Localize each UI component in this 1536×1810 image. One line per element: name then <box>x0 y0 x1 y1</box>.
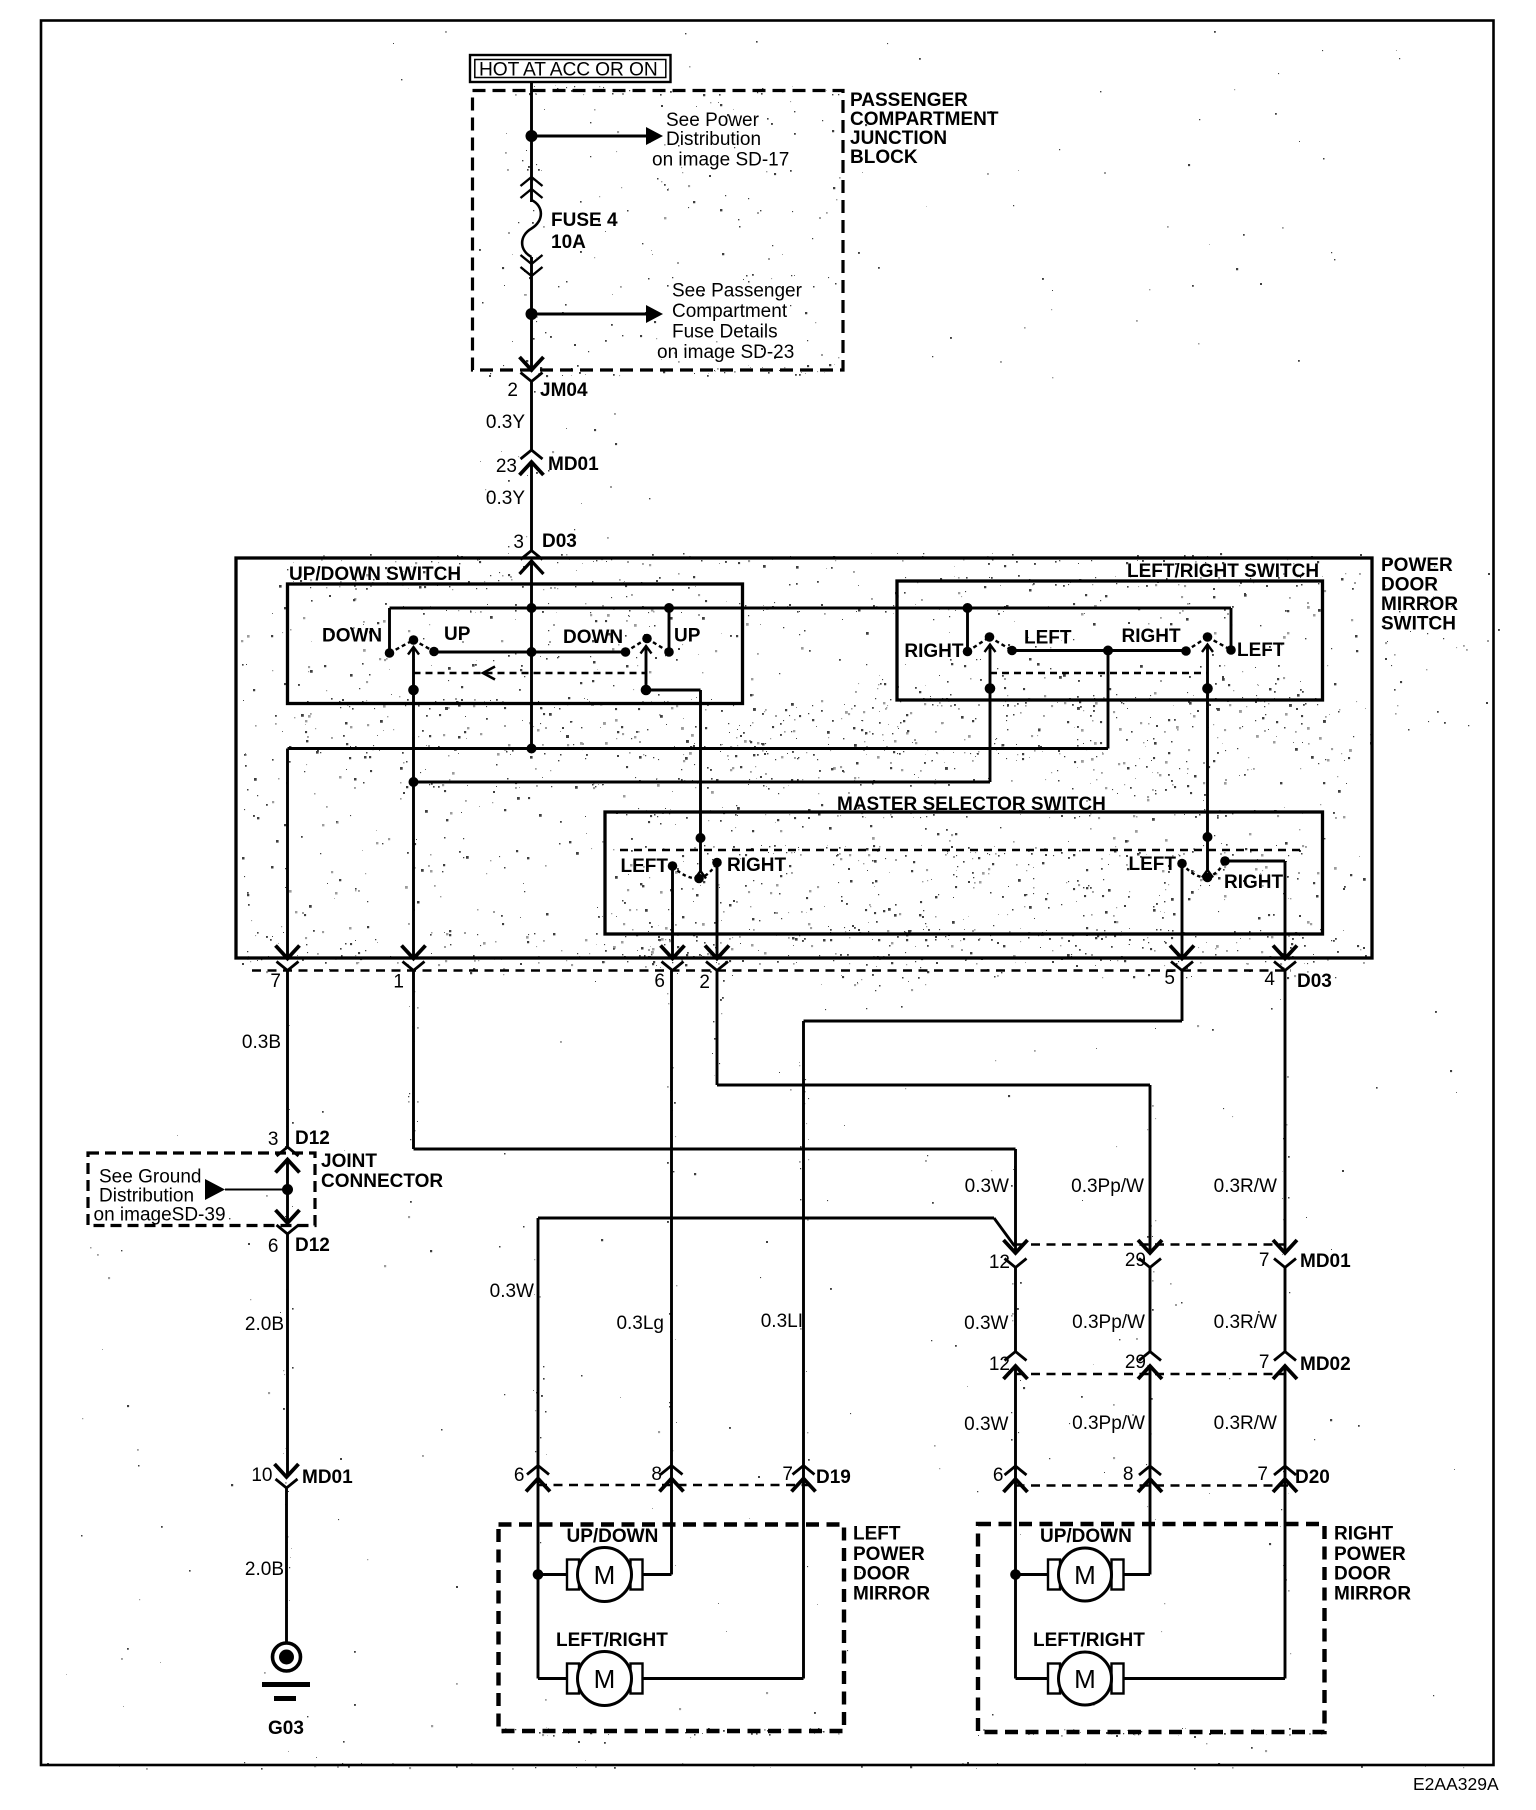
svg-text:E2AA329A: E2AA329A <box>1413 1774 1499 1794</box>
svg-text:6: 6 <box>268 1236 279 1257</box>
node S3 wiper junction <box>985 683 996 694</box>
connector D12 pin 6 <box>276 1210 300 1223</box>
svg-text:G03: G03 <box>268 1718 304 1739</box>
svg-text:UP/DOWN: UP/DOWN <box>1040 1526 1132 1547</box>
connector D03 pin 6 <box>661 946 685 959</box>
svg-text:2.0B: 2.0B <box>245 1559 284 1580</box>
svg-text:UP: UP <box>674 626 701 647</box>
svg-text:JUNCTION: JUNCTION <box>850 128 947 149</box>
connector D03 pin 1 <box>402 946 426 959</box>
svg-text:D19: D19 <box>816 1467 851 1488</box>
connector D03 row (dashed) <box>252 969 1291 972</box>
fuse F4 10A <box>521 177 543 186</box>
svg-text:2.0B: 2.0B <box>245 1314 284 1335</box>
svg-text:0.3Lg: 0.3Lg <box>616 1313 664 1334</box>
svg-text:MD02: MD02 <box>1300 1354 1351 1375</box>
svg-text:5: 5 <box>1164 968 1175 989</box>
wire pin 7 drop from feed rail <box>286 749 289 959</box>
wire 2.0B D12 to MD01 <box>286 1234 289 1477</box>
svg-text:SWITCH: SWITCH <box>1381 614 1456 635</box>
svg-text:POWER: POWER <box>853 1544 925 1565</box>
svg-text:POWER: POWER <box>1381 555 1453 576</box>
wire S4 wiper to master selector right <box>1206 689 1209 838</box>
connector MD02 pin 7 <box>1274 1352 1296 1361</box>
svg-text:LEFT/RIGHT SWITCH: LEFT/RIGHT SWITCH <box>1127 561 1319 582</box>
svg-text:0.3R/W: 0.3R/W <box>1214 1176 1277 1197</box>
mirror assembly RIGHT POWER DOOR MIRROR (dashed box) <box>978 1524 1325 1732</box>
svg-text:LEFT: LEFT <box>1024 628 1072 649</box>
svg-text:UP: UP <box>444 624 471 645</box>
svg-text:2: 2 <box>699 972 710 993</box>
wire 0.3R/W pin 4 down <box>1284 971 1287 1254</box>
connector MD02 pin 12 <box>1005 1352 1027 1361</box>
wire selector feed rail (pin 7 side) <box>288 747 1109 750</box>
svg-text:6: 6 <box>514 1465 525 1486</box>
connector MD01 pin 10 <box>275 1464 299 1477</box>
wire feed from HOT AT ACC OR ON into junction block <box>530 82 533 202</box>
connector MD01 pin 29 <box>1138 1240 1162 1253</box>
svg-text:0.3W: 0.3W <box>964 1414 1008 1435</box>
mirror assembly LEFT POWER DOOR MIRROR (dashed box) <box>499 1525 845 1732</box>
svg-text:0.3W: 0.3W <box>490 1281 534 1302</box>
svg-text:0.3Pp/W: 0.3Pp/W <box>1072 1312 1145 1333</box>
connector D19 pin 7 <box>793 1466 815 1475</box>
wire bus drop to up/down switch 1 DOWN contact <box>388 608 391 653</box>
svg-text:DOOR: DOOR <box>1381 575 1438 596</box>
node pin1 junction to S3 wiper rail <box>409 777 419 787</box>
svg-text:Distribution: Distribution <box>666 129 761 150</box>
node bus junction at D03 feed <box>527 603 537 613</box>
svg-text:POWER: POWER <box>1334 1544 1406 1565</box>
wire 0.3W MD02 to D20 <box>1014 1366 1017 1575</box>
svg-text:PASSENGER: PASSENGER <box>850 90 968 111</box>
svg-text:0.3Y: 0.3Y <box>486 488 525 509</box>
wire 2.0B MD01 to ground <box>285 1488 288 1643</box>
wire master LEFT contact to pin 6 <box>671 866 674 958</box>
connector MD01 pin 23 <box>521 450 543 459</box>
switch S6 master selector right (LEFT/RIGHT) <box>1203 832 1213 842</box>
svg-text:29: 29 <box>1125 1250 1146 1271</box>
svg-text:CONNECTOR: CONNECTOR <box>321 1171 443 1192</box>
svg-text:RIGHT: RIGHT <box>727 855 787 876</box>
wire common down to right left/right motor <box>1014 1575 1017 1679</box>
svg-text:1: 1 <box>393 972 404 993</box>
svg-text:DOOR: DOOR <box>853 1564 910 1585</box>
svg-text:0.3W: 0.3W <box>965 1176 1009 1197</box>
wire rail pin1 to S3 wiper <box>414 781 991 784</box>
node S2 wiper junction <box>641 685 652 696</box>
svg-text:MIRROR: MIRROR <box>853 1584 930 1605</box>
connector D20 pin 6 <box>1005 1466 1027 1475</box>
wire 0.3R/W MD01 to MD02 <box>1284 1268 1287 1352</box>
wire bus drop to left/right switch RIGHT contact <box>966 608 969 652</box>
svg-text:2: 2 <box>507 380 518 401</box>
svg-text:0.3R/W: 0.3R/W <box>1214 1312 1277 1333</box>
wire 0.3Pp/W D20 pin8 to right up/down motor <box>1124 1573 1151 1576</box>
wire 0.3W branch to left mirror <box>538 1217 994 1220</box>
svg-text:See Power: See Power <box>666 110 760 131</box>
svg-text:M: M <box>594 1664 616 1694</box>
connector D19 pin 8 <box>661 1466 683 1475</box>
svg-text:MIRROR: MIRROR <box>1381 594 1458 615</box>
svg-text:See Ground: See Ground <box>99 1167 201 1188</box>
svg-text:8: 8 <box>651 1464 662 1485</box>
svg-text:HOT AT ACC OR ON: HOT AT ACC OR ON <box>479 60 658 81</box>
svg-text:DOWN: DOWN <box>322 626 382 647</box>
svg-text:12: 12 <box>989 1354 1010 1375</box>
svg-text:LEFT: LEFT <box>1129 854 1177 875</box>
svg-text:on image SD-17: on image SD-17 <box>652 150 789 171</box>
svg-text:MD01: MD01 <box>302 1467 353 1488</box>
svg-text:D03: D03 <box>1297 971 1332 992</box>
wire master right RIGHT contact to pin 4 <box>1225 860 1285 863</box>
wire ground distribution reference <box>205 1179 225 1200</box>
mechanical link dashed S3-S4 <box>990 672 1208 674</box>
connector D20 row (dashed) <box>1016 1484 1291 1487</box>
svg-text:23: 23 <box>496 456 517 477</box>
connector MD02 row (dashed) <box>1016 1373 1286 1376</box>
wire 0.3Pp/W MD02 to D20 <box>1149 1366 1152 1575</box>
node S1 wiper junction <box>408 685 419 696</box>
svg-text:0.3LI: 0.3LI <box>761 1311 803 1332</box>
wire pin 1 down and right (0.3W) <box>412 971 415 1150</box>
svg-text:JM04: JM04 <box>540 380 588 401</box>
connector D12 pin 3 <box>277 1147 299 1156</box>
svg-text:0.3Pp/W: 0.3Pp/W <box>1072 1413 1145 1434</box>
wire 0.3Pp/W MD01 to MD02 <box>1149 1268 1152 1352</box>
svg-text:FUSE 4: FUSE 4 <box>551 210 618 231</box>
svg-text:7: 7 <box>1259 1352 1270 1373</box>
wire 0.3Pp/W pin 2 right and down <box>716 971 719 1086</box>
wire to power distribution reference <box>532 135 647 138</box>
svg-text:LEFT: LEFT <box>1237 640 1285 661</box>
svg-text:0.3B: 0.3B <box>242 1032 281 1053</box>
svg-text:RIGHT: RIGHT <box>1224 872 1284 893</box>
svg-text:COMPARTMENT: COMPARTMENT <box>850 109 999 130</box>
svg-text:M: M <box>1074 1560 1096 1590</box>
wire S3/S4 rail drop to selector rail <box>1107 651 1110 749</box>
node bus junction above up/down right contact <box>664 603 674 613</box>
wire S1 wiper to pin 1 and cross rail <box>412 690 415 958</box>
svg-text:Fuse Details: Fuse Details <box>672 322 778 343</box>
node S4 wiper junction <box>1202 683 1213 694</box>
connector D19 pin 6 <box>527 1466 549 1475</box>
node bus junction above left/right contact <box>963 603 973 613</box>
wire D03 feed down to selector rail <box>530 561 533 749</box>
wire bus drop to up/down switch 2 UP contact <box>668 608 671 652</box>
node rail junction to selector rail <box>1103 646 1113 656</box>
mechanical link dashed master selector <box>620 849 1305 851</box>
svg-text:4: 4 <box>1264 969 1275 990</box>
svg-text:LEFT/RIGHT: LEFT/RIGHT <box>1033 1630 1145 1651</box>
svg-text:RIGHT: RIGHT <box>904 641 964 662</box>
wire bus drop to left/right switch LEFT contact <box>1230 608 1233 650</box>
connector MD01 pin 7 <box>1273 1240 1297 1253</box>
svg-text:0.3W: 0.3W <box>964 1313 1008 1334</box>
connector MD01 pin 12 <box>1004 1240 1028 1253</box>
connector D19 row (dashed) <box>538 1484 810 1487</box>
switch box LEFT/RIGHT SWITCH <box>897 581 1323 700</box>
svg-text:8: 8 <box>1123 1464 1134 1485</box>
svg-text:M: M <box>594 1560 616 1590</box>
wire 0.3W MD01 to MD02 <box>1014 1268 1017 1352</box>
wire master RIGHT contact to pin 2 <box>716 863 719 959</box>
connector D03 pin 5 <box>1170 946 1194 959</box>
wire S3 wiper down to rail <box>989 689 992 783</box>
wire 0.3R/W D20 pin7 to right left/right motor <box>1124 1677 1286 1680</box>
node junction to power distribution <box>526 130 538 142</box>
wire master right LEFT contact to pin 5 <box>1181 864 1184 959</box>
svg-text:7: 7 <box>782 1464 793 1485</box>
svg-text:D12: D12 <box>295 1128 330 1149</box>
wire S2 wiper to master selector left <box>646 689 701 692</box>
svg-text:on image SD-23: on image SD-23 <box>657 342 794 363</box>
svg-text:DOOR: DOOR <box>1334 1564 1391 1585</box>
svg-text:6: 6 <box>654 971 665 992</box>
wire common to left up/down motor <box>538 1573 567 1576</box>
node rail junction at D03 feed <box>527 647 537 657</box>
wire 0.3LI D19 pin7 to left left/right motor <box>802 1466 805 1679</box>
svg-text:3: 3 <box>268 1129 279 1150</box>
svg-text:RIGHT: RIGHT <box>1122 626 1182 647</box>
svg-text:MIRROR: MIRROR <box>1334 1584 1411 1605</box>
wire 0.3Lg pin 6 to D19 pin 8 <box>670 971 673 1466</box>
wire contact rail between S3 and S4 <box>1012 649 1186 652</box>
connector D03 pin 3 <box>521 551 543 560</box>
wire contact rail between S1 and S2 <box>434 651 626 654</box>
svg-text:LEFT: LEFT <box>621 856 669 877</box>
svg-text:7: 7 <box>270 971 281 992</box>
wire 0.3Y JM04 to MD01 <box>530 382 533 450</box>
svg-text:0.3R/W: 0.3R/W <box>1214 1413 1277 1434</box>
ground G03 <box>273 1643 301 1671</box>
svg-text:7: 7 <box>1259 1250 1270 1271</box>
node junction to fuse details <box>526 308 538 320</box>
svg-text:BLOCK: BLOCK <box>850 147 918 168</box>
joint connector box (dashed) <box>88 1153 315 1226</box>
connector D20 pin 8 <box>1139 1466 1161 1475</box>
svg-text:M: M <box>1074 1664 1096 1694</box>
svg-text:LEFT/RIGHT: LEFT/RIGHT <box>556 1630 668 1651</box>
connector D03 pin 7 <box>276 946 300 959</box>
node left mirror common junction <box>533 1569 544 1580</box>
wire to fuse details reference <box>532 313 647 316</box>
svg-text:on imageSD-39: on imageSD-39 <box>94 1205 226 1226</box>
power source label HOT AT ACC OR ON <box>470 55 671 82</box>
svg-text:6: 6 <box>993 1465 1004 1486</box>
junction block PASSENGER COMPARTMENT JUNCTION BLOCK (dashed) <box>473 91 844 371</box>
switch box UP/DOWN SWITCH <box>288 584 743 704</box>
svg-text:7: 7 <box>1257 1464 1268 1485</box>
wire 0.3Y MD01 to D03 <box>530 462 533 550</box>
svg-text:RIGHT: RIGHT <box>1334 1524 1394 1545</box>
svg-text:See Passenger: See Passenger <box>672 281 803 302</box>
connector D03 pin 2 <box>705 946 729 959</box>
wire 0.3LI pin 5 left and down to D19 pin 7 <box>1181 971 1184 1022</box>
connector MD01 row (dashed) <box>1016 1243 1286 1246</box>
svg-text:12: 12 <box>989 1252 1010 1273</box>
node joint connector junction <box>282 1184 293 1195</box>
svg-text:D12: D12 <box>295 1235 330 1256</box>
svg-text:0.3Y: 0.3Y <box>486 412 525 433</box>
svg-text:0.3Pp/W: 0.3Pp/W <box>1071 1176 1144 1197</box>
wire supply bus across switch boxes <box>390 607 1232 610</box>
svg-text:MD01: MD01 <box>548 454 599 475</box>
connector MD02 pin 29 <box>1139 1352 1161 1361</box>
wire common to right up/down motor <box>1016 1573 1049 1576</box>
switch box MASTER SELECTOR SWITCH <box>605 812 1323 934</box>
svg-text:10A: 10A <box>551 232 586 253</box>
svg-text:Distribution: Distribution <box>99 1186 194 1207</box>
svg-text:DOWN: DOWN <box>563 627 623 648</box>
svg-text:D20: D20 <box>1295 1467 1330 1488</box>
wire 0.3B pin 7 to D12 <box>286 971 289 1148</box>
svg-text:D03: D03 <box>542 531 577 552</box>
switch assembly POWER DOOR MIRROR SWITCH (outer box) <box>236 558 1372 958</box>
svg-text:Compartment: Compartment <box>672 301 788 322</box>
wire fuse to fuse details junction <box>530 257 533 370</box>
node right mirror common junction <box>1010 1569 1021 1580</box>
connector JM04 pin 2 <box>520 357 544 370</box>
wire D12 pin3 to pin6 through joint connector <box>286 1160 289 1224</box>
mechanical link dashed S1-S2 <box>414 672 647 674</box>
connector D20 pin 7 <box>1274 1466 1296 1475</box>
svg-text:29: 29 <box>1125 1352 1146 1373</box>
wire common down to left left/right motor <box>537 1575 540 1679</box>
svg-text:3: 3 <box>513 532 524 553</box>
wire 0.3Lg D19 pin8 to left up/down motor <box>670 1466 673 1575</box>
svg-text:UP/DOWN: UP/DOWN <box>567 1526 659 1547</box>
svg-text:JOINT: JOINT <box>321 1151 377 1172</box>
svg-text:UP/DOWN SWITCH: UP/DOWN SWITCH <box>289 564 461 585</box>
connector D03 pin 4 <box>1273 946 1297 959</box>
switch S5 master selector left (LEFT/RIGHT) <box>696 833 706 843</box>
wire 0.3R/W MD02 to D20 <box>1284 1366 1287 1679</box>
svg-text:10: 10 <box>251 1465 272 1486</box>
svg-text:MD01: MD01 <box>1300 1251 1351 1272</box>
node feed rail junction at D03 wire <box>527 744 537 754</box>
svg-text:LEFT: LEFT <box>853 1524 901 1545</box>
